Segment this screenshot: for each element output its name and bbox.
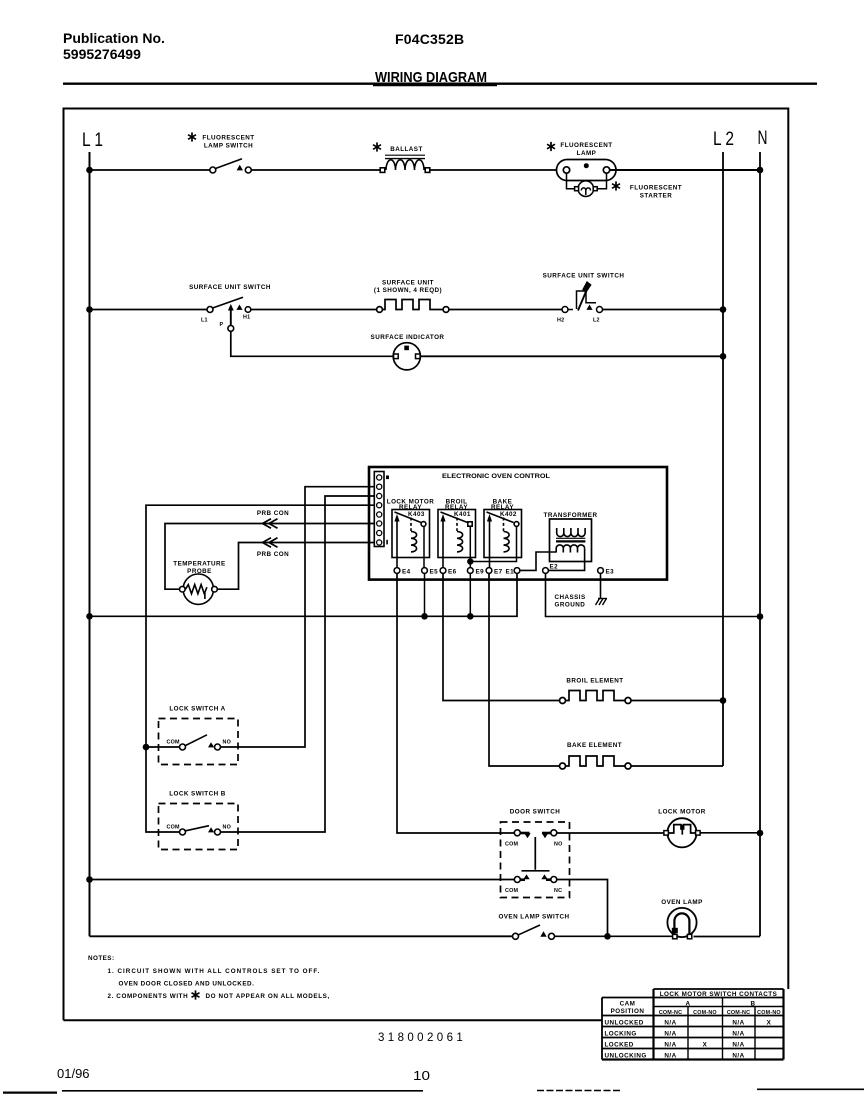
svg-text:NO: NO (223, 825, 232, 831)
svg-text:RELAY: RELAY (445, 504, 468, 511)
svg-text:DOOR SWITCH: DOOR SWITCH (510, 809, 560, 816)
wire E2 to transformer primary right (548, 548, 584, 570)
svg-text:LAMP: LAMP (577, 150, 597, 157)
svg-text:COM-NO: COM-NO (693, 1010, 717, 1016)
svg-text:BALLAST: BALLAST (390, 146, 423, 153)
svg-text:PRB CON: PRB CON (257, 510, 289, 517)
svg-text:STARTER: STARTER (640, 193, 672, 200)
svg-text:COM: COM (505, 888, 518, 894)
door switch mechanical link (522, 837, 550, 871)
svg-text:2. COMPONENTS WITH: 2. COMPONENTS WITH (108, 993, 189, 1000)
wire N vertical bus (759, 152, 761, 936)
connector PRB CON lower chevrons (263, 538, 278, 548)
wire relay1 contact to E5 (423, 526, 425, 567)
svg-text:POSITION: POSITION (611, 1008, 645, 1015)
chassis ground symbol (596, 599, 608, 606)
svg-text:NO: NO (554, 842, 563, 848)
svg-text:L2: L2 (593, 318, 600, 324)
wire bake element to L2 (631, 765, 723, 767)
svg-text:COM: COM (505, 842, 518, 848)
svg-text:5995276499: 5995276499 (63, 46, 141, 62)
switch: door switch upper pole (COM-NO) (514, 830, 557, 839)
wire P branch down to indicator row (231, 331, 393, 356)
junction L1 x neutral row (86, 613, 93, 620)
svg-text:E7: E7 (494, 569, 503, 576)
header rule (63, 82, 817, 84)
svg-text:BAKE ELEMENT: BAKE ELEMENT (567, 742, 622, 749)
junction E9 x neutral row (467, 613, 474, 620)
relay K403 lock motor relay (392, 510, 430, 571)
svg-text:RELAY: RELAY (491, 504, 514, 511)
wire door lower NC to oven lamp row (557, 880, 608, 937)
svg-text:E9: E9 (476, 569, 485, 576)
svg-text:K403: K403 (408, 511, 425, 518)
transformer T1 (550, 519, 592, 562)
svg-text:SURFACE INDICATOR: SURFACE INDICATOR (371, 334, 445, 341)
svg-text:FLUORESCENT: FLUORESCENT (202, 135, 254, 142)
wire pin3 to lock switch B NO (221, 496, 375, 832)
svg-text:01/96: 01/96 (57, 1066, 90, 1081)
wire row1 right segment (610, 169, 760, 171)
svg-text:GROUND: GROUND (555, 602, 586, 609)
lamp: fluorescent lamp (557, 160, 617, 181)
terminal E4 (394, 568, 400, 574)
wire relay2 contact to E9 (469, 526, 471, 567)
wire lock motor to N (700, 832, 760, 834)
wire lock switch A COM stub (146, 746, 180, 748)
svg-text:LOCK MOTOR: LOCK MOTOR (658, 809, 705, 816)
svg-text:SURFACE UNIT SWITCH: SURFACE UNIT SWITCH (543, 273, 625, 280)
wire row1 segment to lamp (431, 169, 557, 171)
svg-text:FLUORESCENT: FLUORESCENT (630, 185, 682, 192)
junction L2 x indicator row (720, 353, 727, 360)
svg-text:K401: K401 (454, 511, 471, 518)
svg-text:NOTES:: NOTES: (88, 955, 115, 962)
junction N x neutral row (757, 613, 764, 620)
svg-text:DO NOT APPEAR ON ALL MODELS,: DO NOT APPEAR ON ALL MODELS, (206, 993, 330, 1000)
border frame (64, 109, 789, 1021)
svg-text:(1 SHOWN, 4 REQD): (1 SHOWN, 4 REQD) (374, 287, 442, 294)
asterisk for starter (612, 181, 620, 190)
wire L2 vertical bus (ends into bake element row) (722, 152, 724, 766)
wire pin2 to lock switch A NO (221, 487, 375, 747)
svg-text:LOCKED: LOCKED (605, 1042, 634, 1049)
svg-text:LOCK SWITCH A: LOCK SWITCH A (169, 706, 225, 713)
junction L1 x door lower row (86, 876, 93, 883)
wire L1 vertical bus (89, 152, 91, 936)
svg-text:N/A: N/A (732, 1020, 744, 1027)
junction N x lock motor row (757, 830, 764, 837)
wire row2 to surface element (251, 309, 377, 311)
svg-text:E5: E5 (430, 569, 439, 576)
svg-text:LAMP SWITCH: LAMP SWITCH (204, 143, 253, 150)
lamp: surface indicator (393, 343, 420, 370)
switch: surface unit switch left (L1/P/N1) (207, 297, 251, 331)
wire E9 down (469, 573, 471, 616)
svg-text:COM-NC: COM-NC (659, 1010, 682, 1016)
relay K402 bake relay (484, 510, 522, 571)
wire E6 down to broil element (443, 573, 560, 700)
svg-text:FLUORESCENT: FLUORESCENT (560, 142, 612, 149)
note 2 asterisk (192, 990, 200, 999)
junction L2 x row2 (720, 306, 727, 313)
svg-text:B: B (751, 1001, 756, 1008)
svg-text:NO: NO (223, 740, 232, 746)
svg-text:COM: COM (167, 740, 180, 746)
wire oven lamp switch to junction (555, 935, 673, 937)
svg-text:LOCKING: LOCKING (605, 1031, 637, 1038)
svg-text:N/A: N/A (732, 1042, 744, 1049)
svg-text:OVEN LAMP SWITCH: OVEN LAMP SWITCH (498, 914, 569, 921)
asterisk for lamp switch (188, 132, 196, 141)
wire broil element to L2 (631, 700, 723, 702)
svg-text:318002061: 318002061 (378, 1032, 466, 1044)
svg-text:L1: L1 (201, 318, 208, 324)
terminal E9 (467, 568, 473, 574)
wire pin8 probe connector row (217, 543, 374, 590)
svg-text:K402: K402 (500, 511, 517, 518)
svg-text:N/A: N/A (664, 1053, 676, 1060)
heater: bake element (560, 756, 632, 769)
wire indicator row right segment (420, 355, 723, 357)
wire row1 middle segment (251, 169, 381, 171)
svg-text:PROBE: PROBE (187, 568, 212, 575)
heater: surface unit element (377, 300, 449, 313)
svg-text:N/A: N/A (664, 1042, 676, 1049)
wire door lower row from L1 (90, 879, 515, 881)
wire E5 down (424, 573, 426, 616)
wire oven lamp to N (694, 936, 761, 938)
svg-text:E3: E3 (606, 569, 615, 576)
svg-text:X: X (767, 1020, 772, 1027)
svg-text:COM: COM (167, 825, 180, 831)
terminal E7 (486, 568, 492, 574)
terminal E1 (514, 568, 520, 574)
junction relay wires above E9 (467, 558, 473, 564)
motor: lock motor (664, 818, 700, 847)
svg-text:E1: E1 (506, 569, 515, 576)
asterisk for fluorescent lamp (547, 142, 555, 151)
svg-text:F04C352B: F04C352B (395, 31, 464, 47)
svg-text:LOCK MOTOR SWITCH CONTACTS: LOCK MOTOR SWITCH CONTACTS (660, 991, 777, 998)
wire pin4 to lock switches COM (146, 505, 374, 832)
svg-text:TEMPERATURE: TEMPERATURE (173, 561, 225, 568)
svg-text:L 1: L 1 (82, 130, 103, 151)
svg-text:P: P (220, 322, 224, 328)
ELECTRONIC OVEN CONTROL box U1 (369, 467, 667, 580)
svg-text:Publication No.: Publication No. (63, 30, 165, 46)
terminal E6 (440, 568, 446, 574)
lock motor switch contacts table (602, 989, 784, 1060)
svg-text:X: X (703, 1042, 708, 1049)
connector strip P1 (374, 472, 384, 547)
svg-text:CHASSIS: CHASSIS (555, 594, 586, 601)
svg-text:BROIL ELEMENT: BROIL ELEMENT (566, 678, 623, 685)
svg-text:UNLOCKED: UNLOCKED (605, 1020, 644, 1027)
switch: lock switch B (159, 804, 239, 850)
junction L1 x row1 (86, 167, 93, 174)
heater: broil element (560, 691, 632, 704)
wire neutral row left segment (L1 to E1) (90, 573, 518, 616)
wire row2 right segment (603, 309, 724, 311)
svg-text:RELAY: RELAY (399, 504, 422, 511)
switch: fluorescent lamp switch (210, 159, 252, 173)
svg-text:A: A (686, 1001, 691, 1008)
terminal E2 (543, 568, 549, 574)
junction L1 x row2 (86, 306, 93, 313)
wire row1 left segment (90, 169, 211, 171)
svg-text:10: 10 (413, 1068, 430, 1083)
wire oven lamp switch row from L1 (90, 935, 513, 937)
junction L2 x broil row (720, 697, 727, 704)
door switch dashed box (501, 822, 570, 898)
svg-text:1. CIRCUIT SHOWN WITH ALL CONT: 1. CIRCUIT SHOWN WITH ALL CONTROLS SET T… (108, 968, 321, 975)
svg-text:SURFACE UNIT: SURFACE UNIT (382, 280, 434, 287)
svg-text:H2: H2 (557, 318, 564, 324)
svg-text:N/A: N/A (664, 1031, 676, 1038)
pin 8 mark (386, 476, 389, 480)
svg-text:CAM: CAM (620, 1001, 636, 1008)
svg-text:UNLOCKING: UNLOCKING (605, 1053, 647, 1060)
switch: lock switch A (159, 719, 239, 765)
wire lamp to starter right leg (596, 173, 607, 188)
lamp: oven lamp (667, 908, 696, 939)
wire E7 down to bake element (489, 573, 560, 766)
svg-text:OVEN DOOR CLOSED AND UNLOCKED.: OVEN DOOR CLOSED AND UNLOCKED. (119, 981, 255, 988)
wire E3 to chassis ground (600, 573, 602, 598)
svg-text:COM-NO: COM-NO (757, 1010, 781, 1016)
relay K401 broil relay (438, 510, 476, 571)
junction NC branch x oven lamp row (604, 933, 611, 940)
wire lamp to starter left leg (567, 173, 577, 188)
svg-text:ELECTRONIC OVEN CONTROL: ELECTRONIC OVEN CONTROL (442, 473, 550, 480)
svg-text:LOCK SWITCH B: LOCK SWITCH B (169, 791, 226, 798)
title underline (373, 83, 497, 86)
svg-text:NC: NC (554, 888, 562, 894)
inductor: ballast (380, 155, 430, 172)
svg-text:E4: E4 (402, 569, 411, 576)
switch: door switch lower pole (COM-NC) (514, 874, 557, 882)
svg-text:N/A: N/A (664, 1020, 676, 1027)
junction pin4 wire x lock switch A COM (143, 744, 150, 751)
svg-text:L 2: L 2 (713, 129, 734, 150)
wire E2 down and right to N (546, 573, 761, 616)
terminal E5 (422, 568, 428, 574)
wire relay3 contact down and over to E9 junction (470, 526, 516, 561)
wire row2 left segment (90, 309, 208, 311)
svg-text:E6: E6 (448, 569, 457, 576)
svg-text:E2: E2 (550, 564, 559, 571)
svg-text:N/A: N/A (732, 1031, 744, 1038)
wire pin6 probe connector row (165, 524, 374, 590)
pin 1 mark (386, 540, 388, 545)
starter: fluorescent starter (575, 181, 598, 197)
junction E5 x neutral row (421, 613, 428, 620)
terminal E3 (598, 568, 604, 574)
svg-text:H1: H1 (243, 315, 250, 321)
wire row2 to right switch (449, 309, 562, 311)
wire door NO to lock motor (557, 832, 664, 834)
svg-text:TRANSFORMER: TRANSFORMER (544, 512, 598, 519)
wire E4 down to door switch COM (397, 573, 515, 833)
svg-text:COM-NC: COM-NC (727, 1010, 750, 1016)
svg-text:N: N (758, 128, 768, 149)
svg-text:SURFACE UNIT SWITCH: SURFACE UNIT SWITCH (189, 284, 271, 291)
connector PRB CON upper chevrons (263, 519, 278, 529)
svg-text:OVEN LAMP: OVEN LAMP (661, 899, 702, 906)
switch: oven lamp switch (513, 925, 555, 939)
asterisk for ballast (373, 142, 381, 151)
wire E1 to transformer primary left (520, 552, 556, 570)
svg-text:N/A: N/A (732, 1053, 744, 1060)
junction N x row1 (757, 167, 764, 174)
resistor: temperature probe (180, 574, 218, 604)
svg-text:PRB CON: PRB CON (257, 551, 289, 558)
footer rule segments (3, 1089, 864, 1092)
switch: surface unit switch right (H2/L2) (562, 281, 603, 313)
